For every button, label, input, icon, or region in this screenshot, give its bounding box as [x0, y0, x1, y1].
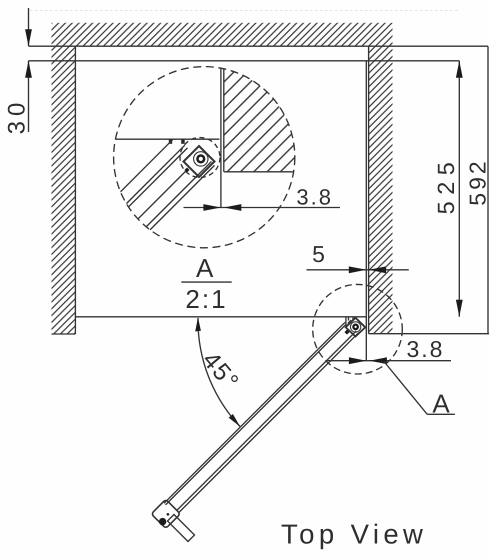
- dimension 30: [4, 8, 32, 134]
- svg-text:3.8: 3.8: [296, 185, 333, 210]
- door bar bottom edge (double): [177, 331, 356, 511]
- wire: door closed reference line: [75, 316, 366, 318]
- svg-text:3.8: 3.8: [407, 336, 445, 362]
- dimension 3.8 (main view): [326, 336, 451, 364]
- door panel (45deg): glass line 1: [164, 322, 345, 503]
- detail hatch bottom cap: [224, 171, 296, 173]
- wire: right wall inner face: [368, 46, 370, 334]
- svg-text:5: 5: [312, 241, 325, 267]
- hinge pivot circles: [350, 322, 360, 332]
- detail pivot block: [184, 146, 215, 177]
- svg-text:525: 525: [433, 156, 459, 215]
- detail door glass pair: [110, 145, 185, 220]
- leader and label A (detail callout): [384, 362, 455, 419]
- door glass line 2: [166, 324, 347, 505]
- faint scan artifact line: [30, 10, 460, 12]
- door end clamp block (bottom): [151, 499, 180, 528]
- wall top hatched band: [52, 23, 393, 46]
- angle arc 45deg: [198, 318, 240, 427]
- detail panel ticks: [169, 139, 172, 144]
- detail small dashed circle: [180, 138, 220, 178]
- detail door lower pair: [135, 162, 212, 239]
- door end pivot dot: [159, 518, 166, 525]
- wire: left wall bottom cap: [52, 333, 76, 335]
- wall right hatched band: [369, 46, 393, 334]
- detail label A over 2:1: [181, 253, 231, 314]
- wire: right wall bottom cap extended right: [369, 333, 489, 335]
- svg-text:Top View: Top View: [281, 519, 427, 550]
- svg-text:45°: 45°: [197, 347, 244, 396]
- svg-text:592: 592: [465, 158, 489, 205]
- detail door mid line: [125, 170, 187, 232]
- dimension 525: [433, 61, 463, 317]
- dimension 592 (cut by image edge): [465, 46, 489, 334]
- wire: glass edge line at right wall: [365, 61, 367, 361]
- wire: left wall inner face: [74, 46, 76, 334]
- svg-text:2:1: 2:1: [185, 284, 227, 314]
- dimension 3.8 (detail): [184, 185, 341, 211]
- door stop stub: [167, 514, 194, 541]
- svg-text:30: 30: [4, 98, 31, 135]
- detail panel bottom line: [112, 138, 219, 140]
- wall left hatched band: [52, 46, 76, 334]
- svg-text:A: A: [196, 253, 214, 283]
- detail clamp screw tick: [184, 167, 189, 172]
- small dashed circle (detail locator A): [313, 284, 403, 374]
- detail wall hatch: [224, 64, 296, 172]
- dimension 5: [307, 241, 409, 273]
- svg-text:A: A: [432, 389, 450, 419]
- detail boundary dashed circle: [114, 67, 295, 248]
- detail pivot rings: [194, 152, 208, 166]
- detail glass edge line: [220, 64, 222, 208]
- hinge clamp ticks: [345, 318, 347, 326]
- detail door bar top edge: [103, 139, 173, 209]
- hinge block (top pivot): [346, 318, 366, 337]
- detail wall face line: [223, 64, 225, 172]
- wire: inner face line A (top wall bottom edge, extended for dims): [29, 45, 489, 47]
- wire: line B (fixed panel line, extended for dims): [29, 60, 460, 62]
